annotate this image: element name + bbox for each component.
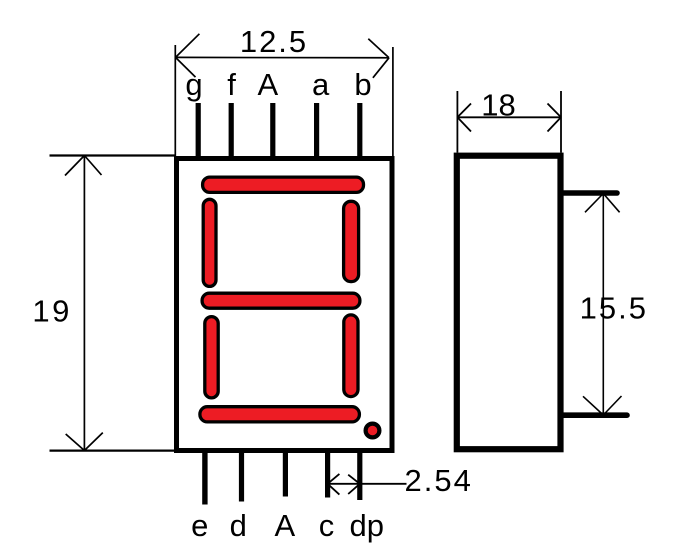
dimension 15.5 bottom arrowhead	[583, 396, 622, 415]
dimension 18 line	[457, 116, 561, 118]
dimension 2.54 line	[328, 483, 407, 485]
dimension 12.5 extension line left	[174, 45, 176, 156]
svg-text:15.5: 15.5	[580, 291, 648, 326]
svg-text:a: a	[312, 67, 330, 102]
pin c (bottom lead)	[325, 451, 330, 498]
svg-text:b: b	[354, 67, 371, 102]
dimension 15.5 line	[602, 194, 604, 416]
side view body	[457, 156, 561, 450]
segment f (upper left vertical)	[203, 199, 216, 286]
svg-text:c: c	[319, 508, 335, 543]
svg-text:dp: dp	[349, 508, 383, 543]
svg-text:f: f	[227, 67, 236, 102]
svg-text:19: 19	[32, 293, 71, 328]
dimension 19 line	[83, 156, 85, 451]
svg-text:e: e	[191, 508, 208, 543]
pin A anode (top lead)	[270, 103, 275, 158]
dimension 18 extension line left	[456, 91, 458, 153]
pin b (top lead)	[357, 103, 362, 158]
pin A anode (bottom lead)	[283, 451, 288, 497]
dimension 19 top arrowhead	[65, 156, 102, 176]
pin a (top lead)	[314, 103, 319, 158]
svg-text:2.54: 2.54	[405, 463, 473, 498]
dimension 19 bottom arrowhead	[66, 433, 103, 451]
pin g (top lead)	[196, 103, 201, 158]
dimension 12.5 right arrowhead	[368, 39, 389, 78]
display body front view	[177, 159, 393, 451]
pin dp (bottom lead)	[357, 451, 362, 500]
dimension 19 extension line top	[50, 154, 177, 156]
svg-text:A: A	[275, 508, 296, 543]
pin e (bottom lead)	[202, 451, 207, 505]
pin f (top lead)	[229, 103, 234, 158]
dimension 12.5 left arrowhead	[176, 34, 200, 77]
svg-text:12.5: 12.5	[240, 24, 308, 59]
segment c (lower right vertical)	[344, 315, 358, 397]
svg-text:A: A	[257, 67, 278, 102]
segment b (upper right vertical)	[344, 201, 359, 281]
segment g (middle horizontal)	[202, 293, 360, 308]
dimension 15.5 top arrowhead	[585, 194, 620, 213]
dimension 12.5 extension line right	[392, 47, 394, 156]
svg-text:d: d	[230, 508, 247, 543]
dimension 18 right arrowhead	[548, 104, 562, 132]
decimal point dp	[364, 422, 382, 440]
dimension 2.54 left arrowhead	[328, 474, 340, 495]
dimension 12.5 line	[176, 56, 390, 58]
segment d (bottom horizontal)	[200, 407, 360, 422]
side view bottom pin	[562, 412, 627, 418]
segment a (top horizontal)	[203, 177, 364, 192]
svg-text:g: g	[185, 67, 202, 102]
dimension 2.54 right arrowhead	[348, 475, 360, 494]
side view top pin	[562, 190, 617, 196]
pin d (bottom lead)	[239, 451, 244, 502]
dimension 19 extension line bottom	[50, 450, 177, 452]
svg-text:18: 18	[481, 88, 515, 123]
segment e (lower left vertical)	[205, 317, 218, 398]
dimension 18 left arrowhead	[457, 104, 471, 132]
dimension 18 extension line right	[560, 91, 562, 153]
